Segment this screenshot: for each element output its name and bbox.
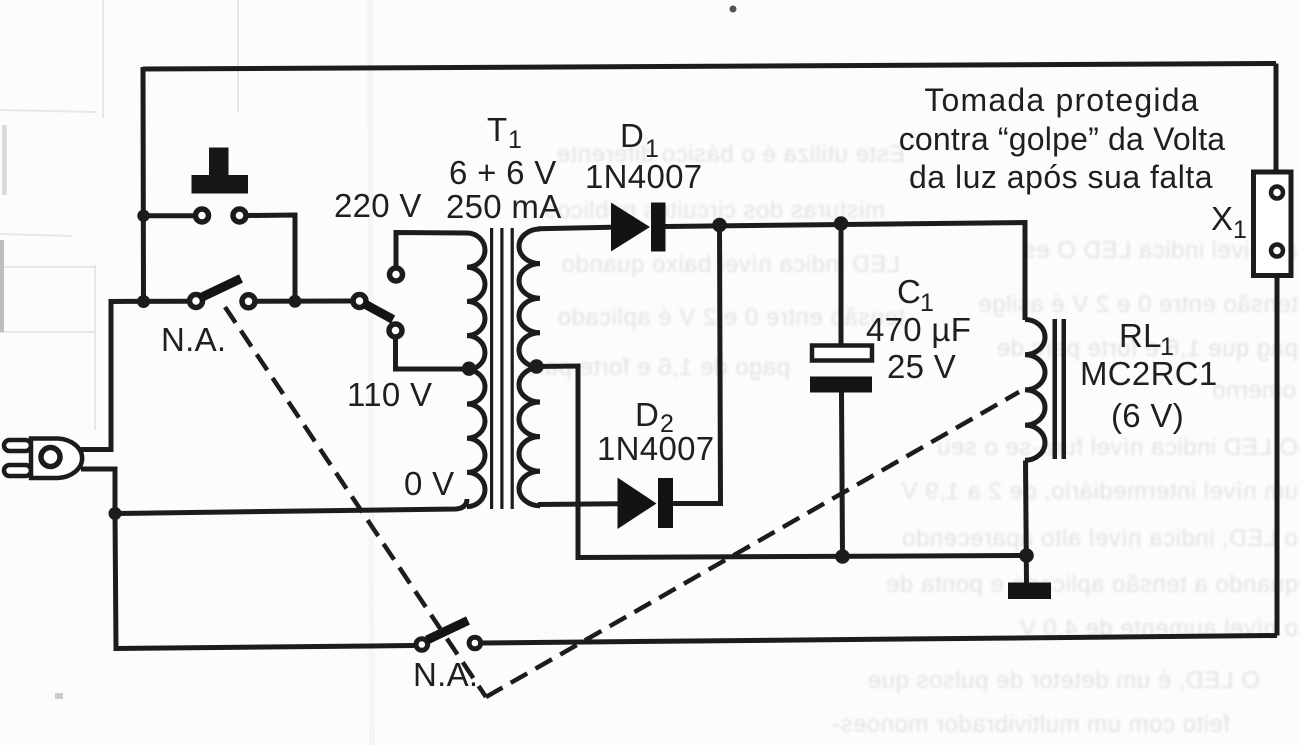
svg-text:D: D [620,117,644,154]
node: pushbutton bypass junction [289,295,302,308]
AC plug [4,439,82,479]
ground [1008,583,1051,600]
wire: 0V horizontal to primary bottom [115,499,467,514]
dashed mechanical link: pivot to relay RL1 [486,392,1019,697]
svg-text:D: D [635,396,659,433]
wire: plug top lead up to switch row [81,301,187,449]
svg-text:MC2RC1: MC2RC1 [1080,355,1218,392]
svg-text:da luz após sua falta: da luz após sua falta [909,159,1213,195]
svg-text:tensão entre 0 e 2 V é aplicad: tensão entre 0 e 2 V é aplicado [557,304,905,331]
wire: capacitor bottom lead [842,393,843,557]
wire: relay coil bottom to rail and ground [1026,461,1027,584]
socket X1 [1254,172,1292,276]
svg-text:1: 1 [508,126,522,154]
faint bleed-through ghost text [522,141,1298,738]
svg-text:110 V: 110 V [347,376,432,413]
svg-text:470 µF: 470 µF [866,311,971,348]
svg-text:quando a tensão aplicada e pon: quando a tensão aplicada e ponta de [885,571,1298,598]
transformer T1 primary winding [467,233,485,507]
node: switch row on left vertical [137,295,150,308]
svg-text:feito com um multivibrador mon: feito com um multivibrador monoes- [832,711,1230,738]
svg-text:1N4007: 1N4007 [585,158,702,195]
svg-text:6 + 6 V: 6 + 6 V [449,154,557,191]
node: capacitor positive junction [834,216,849,231]
svg-text:contra “golpe” da Volta: contra “golpe” da Volta [899,121,1226,157]
svg-text:N.A.: N.A. [413,656,478,693]
transformer T1 core [490,228,514,509]
svg-text:o LED, indica nível alto apare: o LED, indica nível alto aparecendo [902,525,1298,552]
node: pushbutton tap on left vertical [137,210,149,222]
svg-text:um nível intermediário, de 2 a: um nível intermediário, de 2 a 1,9 V [901,478,1298,505]
wire: top rail [143,64,1276,70]
switch: 110/220 selector [353,268,403,337]
dashed mechanical link: N.A.1 to pivot [225,307,486,697]
capacitor C1 plates [810,346,872,393]
margin specks [0,6,737,700]
wire: D1 cathode to relay corner [666,223,1026,321]
svg-text:(6 V): (6 V) [1111,397,1184,434]
node: 110V tap junction [462,362,476,376]
svg-text:RL: RL [1119,317,1162,354]
svg-text:LED indica nível baixo quando: LED indica nível baixo quando [561,251,900,278]
node: relay negative junction [1019,548,1034,563]
node: capacitor negative junction [835,549,850,564]
switch N.A. 1 (relay contact) [190,279,256,308]
svg-text:C: C [897,273,921,310]
relay RL1 coil [1025,320,1045,461]
diode D1 [611,203,666,252]
wire: secondary bottom to D2 [538,501,618,507]
svg-text:Tomada protegida: Tomada protegida [924,82,1199,118]
svg-text:N.A.: N.A. [161,321,226,358]
wire: bottom rail left segment [115,512,414,649]
wire: secondary centre tap to negative rail [536,366,1027,558]
svg-text:0 V: 0 V [404,465,454,502]
svg-text:1N4007: 1N4007 [597,430,714,467]
wire: secondary top to D1 [538,227,611,228]
node: secondary centre tap [529,359,543,373]
svg-text:T: T [487,111,507,148]
wire: N.A.1 to selector common [258,299,351,304]
diode D2 [618,478,674,530]
switch N.A. 2 (relay contact, bottom) [416,621,481,651]
wire: left vertical from top rail to switch row [141,67,147,302]
wire: 110V contact down to tap [396,339,467,369]
svg-text:O LED indica nível fura-se o s: O LED indica nível fura-se o seu [936,434,1298,461]
svg-text:O LED, é um detetor de pulsos: O LED, é um detetor de pulsos que [867,667,1260,694]
relay RL1 core [1053,319,1067,459]
wire: 220V contact up and over to primary top [396,233,467,267]
svg-text:250 mA: 250 mA [446,188,562,225]
pushbutton S1 actuator [192,148,249,194]
wire: plug bottom lead to 0V node [81,469,115,514]
svg-text:25 V: 25 V [887,348,956,385]
wire: bottom rail right segment [483,636,1278,644]
node: D1/D2 cathode junction [712,218,727,233]
wire: pushbutton row from left vertical [144,213,194,218]
svg-text:220 V: 220 V [334,187,422,224]
svg-text:1: 1 [1233,216,1247,244]
wire: D2 cathode up to D1 output junction [673,225,721,504]
svg-text:omernо: omernо [1212,377,1296,404]
transformer T1 secondary winding [519,229,540,506]
node: 0V plug junction [109,507,122,520]
wire: capacitor top lead [839,224,844,346]
wire: right vertical top rail to X1 [1274,64,1279,173]
wire: pushbutton right to vertical drop [249,215,296,301]
svg-text:X: X [1211,200,1233,237]
pushbutton S1 contacts [196,209,247,222]
wire: X1 bottom to bottom rail [1275,276,1280,636]
faint scan grid top-left [0,0,372,745]
